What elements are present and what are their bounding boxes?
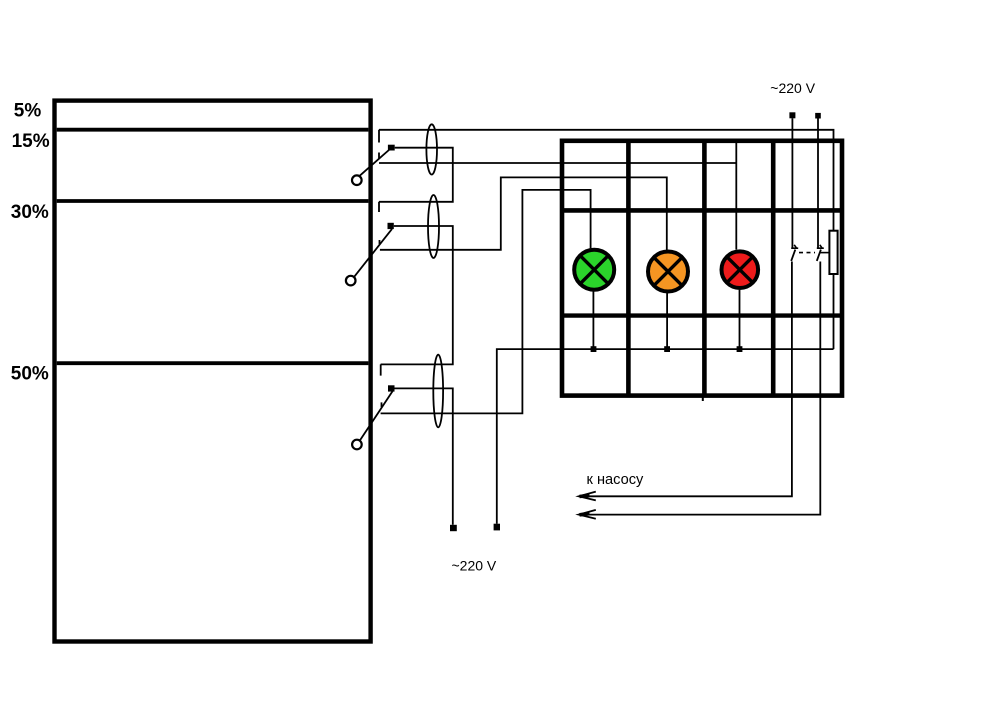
tank level line 50% <box>57 361 369 365</box>
arrowhead lower <box>579 510 596 519</box>
supply terminal X4 <box>815 113 821 119</box>
wire: SQ1 lower rail to red lamp HL3 <box>379 141 736 250</box>
gland ellipse of SQ3 <box>433 355 443 428</box>
panel divider 3 <box>771 141 776 396</box>
arrowhead upper <box>579 492 596 501</box>
wire: X4 to contactor contact KM1.2 <box>817 119 819 248</box>
wire: HL2 bottom to bus <box>666 293 668 350</box>
panel horizontal rail top <box>562 208 842 213</box>
float of SQ1 <box>352 175 362 185</box>
contactor contact KM1.2 <box>817 245 824 261</box>
wire: X3 to contactor contact KM1.1 <box>791 118 793 247</box>
bus junction square HL2 <box>664 346 670 352</box>
contactor coil KM1 <box>829 231 837 274</box>
wire: SQ1 contact to bracket of SQ2 <box>379 148 453 202</box>
green lamp HL1 <box>574 250 614 290</box>
float arm of SQ3 <box>360 391 393 441</box>
wire: coil bottom to bus <box>833 274 835 349</box>
panel divider 1 <box>626 141 631 396</box>
contact square of level switch SQ2 <box>388 223 394 229</box>
svg-text:~220 V: ~220 V <box>452 558 497 574</box>
tank outline <box>55 101 371 642</box>
supply terminal X2 <box>494 524 500 531</box>
svg-text:50%: 50% <box>11 364 49 385</box>
wire: HL1 bottom to bus <box>592 291 594 349</box>
wire: HL3 bottom to bus <box>739 290 741 349</box>
svg-text:15%: 15% <box>12 131 50 152</box>
float arm of SQ2 <box>354 229 392 277</box>
float arm of SQ1 <box>359 150 390 177</box>
wire: terminal X2 to common lamp bus <box>497 349 834 524</box>
bus junction square HL3 <box>737 346 743 352</box>
panel divider 2 stub <box>702 396 704 401</box>
wire: SQ2 lower rail to orange lamp HL2 <box>380 177 667 251</box>
wire: bus from level-switch 1 bracket to contactor coil KM1 top <box>379 130 834 231</box>
gland ellipse of SQ2 <box>428 195 439 258</box>
bracket of level switch SQ3 <box>380 364 383 407</box>
bus junction square HL1 <box>591 346 597 352</box>
tank level line 30% <box>57 199 369 203</box>
svg-text:~220 V: ~220 V <box>770 80 815 96</box>
wire: KM1.2 to pump (lower) <box>582 262 820 515</box>
tank level line 15% <box>57 128 369 132</box>
contact square of level switch SQ1 <box>388 145 395 151</box>
wire: KM1.1 to pump (upper) <box>582 262 792 497</box>
mechanical link dashes <box>799 252 815 254</box>
bracket of level switch SQ1 <box>378 130 380 159</box>
float of SQ2 <box>346 276 356 286</box>
panel divider 2 <box>702 141 707 396</box>
panel horizontal rail bottom <box>562 313 842 317</box>
bracket of level switch SQ2 <box>378 202 381 244</box>
contactor contact KM1.1 <box>791 245 798 261</box>
contact square of level switch SQ3 <box>388 385 395 391</box>
float of SQ3 <box>352 440 362 450</box>
wire: SQ3 lower rail to green lamp HL1 <box>381 190 591 414</box>
panel enclosure <box>562 141 842 396</box>
orange lamp HL2 <box>648 252 688 292</box>
supply terminal X1 <box>450 525 457 531</box>
red lamp HL3 <box>722 251 759 288</box>
svg-text:30%: 30% <box>11 202 49 223</box>
gland ellipse of SQ1 <box>426 124 437 174</box>
svg-text:5%: 5% <box>14 101 42 122</box>
svg-text:к насосу: к насосу <box>587 472 644 488</box>
wire: SQ2 contact to bracket of SQ3 <box>381 226 453 364</box>
link to coil <box>820 252 829 254</box>
supply terminal X3 <box>789 112 795 118</box>
wire: SQ3 contact to supply terminal X1 <box>395 388 453 524</box>
